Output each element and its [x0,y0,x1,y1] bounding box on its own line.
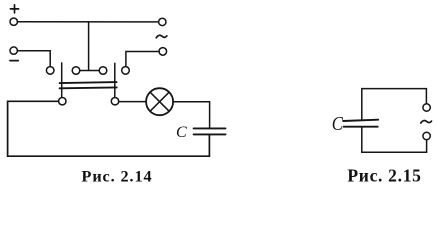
switch contact S1 [46,67,54,75]
switch right rail [114,63,116,97]
tilde AC label fig2.14 [156,35,167,38]
switch left rail [61,63,63,97]
wire from S4 up to AC lower terminal [126,52,159,67]
tilde AC label fig2.15 [421,120,432,123]
svg-text:C: C [332,113,344,135]
switch crossbar lower line [60,86,117,89]
switch pole circle B2 [111,98,118,105]
terminal circle + (DC positive) [10,18,17,25]
terminal circle AC lower [159,48,167,56]
wire fig2.15 bottom side [362,127,427,152]
svg-text:Рис. 2.14: Рис. 2.14 [82,168,153,186]
switch crossbar upper line [60,82,117,83]
switch contact S3 [99,67,107,75]
plus label of DC source [10,5,18,13]
switch contact S2 [72,67,80,75]
wire from minus terminal to switch contact S1 [18,51,51,67]
minus label of DC source [10,60,18,62]
terminal circle AC top fig2.15 [423,104,430,111]
wire from lamp to capacitor top plate [173,102,210,129]
wire top bus [18,21,159,23]
terminal circle AC bottom fig2.15 [423,132,430,139]
switch pole circle B1 [59,98,66,105]
svg-text:C: C [176,124,187,141]
capacitor C1 bottom plate [194,133,226,135]
wire from B2 to lamp [119,101,146,103]
terminal circle - (DC negative) [10,47,17,54]
svg-text:Рис. 2.15: Рис. 2.15 [347,166,421,186]
terminal circle AC top [159,18,166,25]
wire from B1 around left and bottom to capacitor bottom plate [8,101,210,156]
capacitor C1 top plate [194,127,226,129]
wire between S2 and S3 [80,70,99,72]
wire stub from top bus to switch middle [88,22,90,71]
capacitor C2 top plate [343,120,378,121]
switch contact S4 [122,67,130,75]
lamp cross [150,92,169,111]
wire fig2.15 left and top side [362,89,427,120]
lamp circle [146,88,173,115]
capacitor C2 bottom plate [344,126,378,128]
